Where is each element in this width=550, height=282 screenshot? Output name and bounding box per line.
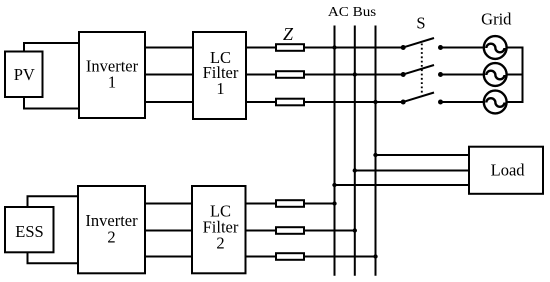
svg-text:AC Bus: AC Bus bbox=[328, 5, 376, 20]
svg-text:1: 1 bbox=[108, 73, 116, 92]
svg-text:Grid: Grid bbox=[481, 10, 512, 29]
svg-text:2: 2 bbox=[107, 228, 115, 247]
svg-text:2: 2 bbox=[216, 233, 224, 252]
svg-text:S: S bbox=[416, 14, 425, 33]
svg-text:1: 1 bbox=[216, 79, 224, 98]
svg-text:ESS: ESS bbox=[15, 222, 43, 241]
svg-text:Z: Z bbox=[283, 24, 294, 44]
svg-text:PV: PV bbox=[14, 65, 35, 84]
svg-text:Load: Load bbox=[491, 160, 526, 179]
